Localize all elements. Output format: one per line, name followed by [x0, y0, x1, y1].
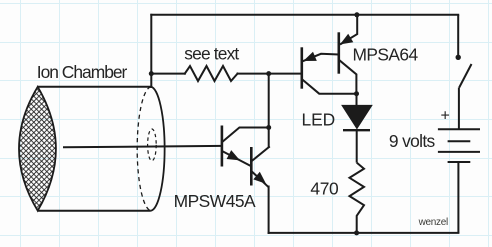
wire resistor lead left: [151, 73, 185, 75]
wire left vertical from rail to resistor node: [150, 15, 152, 74]
Q4 collector diagonal: [340, 60, 357, 93]
wire node B to PNP base: [269, 73, 302, 75]
wire collector bus vertical: [268, 74, 270, 147]
battery plate 2 (short): [448, 140, 471, 142]
junction node switch contact: [456, 55, 461, 60]
LED cathode bar: [343, 129, 370, 131]
resistor R1 see-text zigzag: [185, 66, 238, 81]
junction node Q1 collector: [266, 125, 271, 130]
switch lever: [459, 64, 471, 88]
junction node resistor/base bus: [266, 71, 271, 76]
svg-text:+: +: [441, 108, 450, 125]
svg-text:MPSA64: MPSA64: [353, 45, 419, 65]
svg-text:see text: see text: [184, 43, 239, 63]
Q4 bar: [337, 32, 340, 73]
ion chamber inner electrode ellipse (dashed): [148, 129, 157, 161]
svg-text:Ion Chamber: Ion Chamber: [37, 62, 128, 82]
transistor Q3 (MPSA64 input, PNP): [302, 47, 357, 93]
ion chamber top wall: [38, 86, 151, 88]
LED cathode lead: [356, 130, 358, 162]
switch S1: [458, 15, 471, 129]
svg-text:9 volts: 9 volts: [389, 131, 436, 151]
LED triangle: [341, 105, 373, 130]
battery plate 4 (short): [448, 161, 471, 163]
junction node at rail/resistor: [149, 71, 154, 76]
wire top rail: [151, 14, 458, 16]
switch top terminal: [457, 15, 459, 56]
LED D1: [341, 94, 373, 163]
Q3 collector diagonal: [302, 80, 356, 94]
transistor Q2 (MPSW45A output): [251, 147, 268, 187]
Q3 emitter diagonal to Q4 base: [303, 54, 339, 61]
wire ion chamber electrode: [64, 146, 222, 147]
ion chamber bottom wall: [38, 210, 151, 212]
Q2 emitter arrowhead: [253, 172, 266, 184]
Q1 emitter diagonal: [223, 151, 251, 166]
wire node A to ion chamber top: [150, 74, 152, 87]
Q4 emitter arrowhead: [340, 34, 353, 45]
junction node LED / collectors: [354, 91, 359, 96]
transistor Q4 (MPSA64 output, PNP): [339, 15, 357, 94]
Q3 emitter arrowhead: [303, 52, 317, 61]
Q4 emitter from top rail: [340, 15, 357, 45]
ion chamber left end cap (crosshatched lens): [19, 87, 56, 211]
svg-text:MPSW45A: MPSW45A: [174, 191, 256, 211]
battery plate 1 (+ long): [438, 128, 480, 130]
battery B1 9 volts: [438, 129, 480, 233]
junction node top rail / Q4 emitter: [354, 12, 359, 17]
wire Q1 collector horizontal: [223, 128, 269, 142]
wire bottom rail: [269, 232, 459, 234]
switch bottom terminal wire: [458, 88, 460, 130]
transistor Q1 (MPSW45A input): [222, 126, 251, 167]
ion chamber open end back edge (dashed arc): [137, 87, 151, 211]
wire Q2 emitter to bottom rail: [268, 187, 270, 233]
svg-text:470: 470: [310, 179, 338, 199]
Q1 emitter arrowhead: [227, 150, 240, 160]
junction node resistor / bottom rail: [354, 230, 359, 235]
Q2 bar: [250, 147, 253, 186]
resistor R2 470: [350, 163, 365, 233]
wire resistor lead right: [238, 73, 269, 75]
ion chamber open end front edge (solid arc): [151, 87, 165, 211]
Q1 bar: [221, 126, 224, 167]
Q3 bar: [300, 47, 303, 88]
Q2 emitter diagonal: [252, 172, 269, 188]
battery negative lead: [457, 162, 459, 233]
ion chamber: [19, 87, 165, 211]
LED anode lead: [356, 94, 358, 105]
svg-text:wenzel: wenzel: [418, 217, 448, 228]
battery plate 3 (long): [438, 151, 480, 153]
wire Q2 collector diagonal: [252, 147, 269, 161]
svg-text:LED: LED: [302, 110, 336, 130]
